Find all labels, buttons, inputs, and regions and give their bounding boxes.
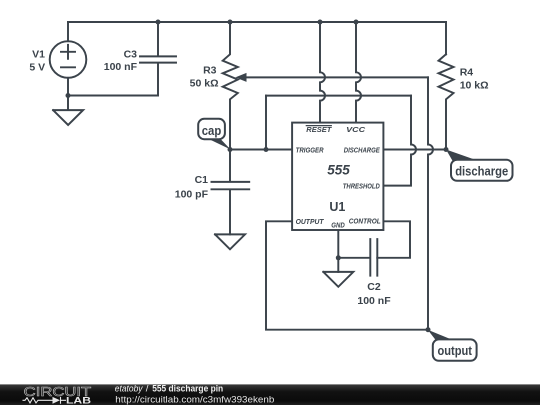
svg-text:OUTPUT: OUTPUT (296, 217, 325, 226)
junction dot V1 bottom (66, 93, 71, 98)
voltage source V1 (50, 41, 87, 78)
wire control loop (377, 221, 410, 257)
wire trigger-threshold link horizontal (266, 95, 411, 97)
svg-text:100 nF: 100 nF (104, 61, 138, 73)
wire V1 top lead (67, 22, 69, 41)
wire V1 bottom lead (67, 78, 69, 96)
svg-text:C3: C3 (124, 49, 138, 61)
svg-text:output: output (437, 343, 472, 358)
junction dot rail VCC (354, 20, 359, 25)
node output flag wedge (428, 330, 457, 342)
RESET overline (306, 125, 331, 127)
node cap flag wedge (209, 139, 231, 150)
junction dot rail C3 (156, 20, 161, 25)
logo resistor-diode squiggle (23, 397, 67, 404)
svg-text:V1: V1 (32, 49, 45, 61)
resistor R3 (pot) (223, 22, 238, 150)
wire trigger-threshold link vertical left (265, 96, 267, 150)
node discharge flag wedge (446, 150, 478, 161)
wire trigger (230, 149, 292, 151)
svg-text:/: / (146, 384, 149, 395)
svg-text:R4: R4 (460, 67, 474, 79)
svg-text:555 discharge pin: 555 discharge pin (152, 384, 223, 395)
logo diode triangle (53, 397, 61, 404)
junction dot trigger link (264, 147, 269, 152)
svg-text:RESET: RESET (306, 125, 333, 134)
junction dot cap node (228, 147, 233, 152)
capacitor C3 (140, 22, 176, 96)
ground G3 (C1) (215, 234, 245, 249)
svg-text:100 nF: 100 nF (357, 295, 391, 307)
junction dot gnd C2 (336, 255, 341, 260)
wire RESET pin vertical with hops (320, 22, 325, 123)
wire output vertical with hop at discharge (428, 77, 433, 329)
resistor R4 (439, 54, 454, 149)
svg-text:U1: U1 (329, 200, 345, 214)
svg-text:C1: C1 (195, 174, 209, 186)
svg-text:100 pF: 100 pF (175, 189, 209, 201)
svg-text:R3: R3 (203, 65, 217, 77)
node discharge box (451, 160, 513, 181)
svg-text:etatoby: etatoby (115, 384, 144, 395)
wire output loop (266, 221, 428, 329)
svg-text:C2: C2 (367, 281, 381, 293)
svg-text:VCC: VCC (346, 125, 366, 134)
node cap box (198, 119, 225, 139)
svg-text:THRESHOLD: THRESHOLD (343, 181, 381, 190)
svg-text:discharge: discharge (455, 164, 508, 179)
wire discharge (383, 149, 446, 151)
svg-text:DISCHARGE: DISCHARGE (344, 145, 381, 154)
op-amp U1 555 body (292, 123, 383, 230)
svg-text:CONTROL: CONTROL (349, 216, 381, 225)
footer bar (0, 384, 540, 405)
wire V1 to C3 bottom (68, 95, 158, 97)
wire GND pin (337, 230, 339, 272)
wire top rail (68, 21, 446, 23)
svg-text:TRIGGER: TRIGGER (296, 145, 325, 154)
wire R4 top lead (445, 22, 447, 54)
svg-text:cap: cap (202, 123, 222, 138)
wire threshold vertical with hop (383, 96, 416, 186)
R3 wiper arrowhead (235, 73, 246, 82)
svg-text:LAB: LAB (66, 396, 91, 405)
ground G2 (555 GND) (323, 272, 353, 287)
capacitor C1 (212, 150, 250, 235)
wire VCC pin vertical with hops (356, 22, 361, 123)
junction dot discharge node (444, 147, 449, 152)
node output box (433, 339, 477, 360)
ground G1 (V1) (53, 96, 83, 126)
wire R3 wiper to output vertical (246, 76, 428, 78)
svg-text:http://circuitlab.com/c3mfw393: http://circuitlab.com/c3mfw393ekenb (115, 394, 274, 405)
svg-text:50 kΩ: 50 kΩ (190, 78, 219, 90)
svg-text:GND: GND (331, 221, 345, 230)
svg-text:5 V: 5 V (29, 62, 45, 74)
junction dot output node (426, 327, 431, 332)
capacitor C2 (338, 239, 377, 276)
svg-text:10 kΩ: 10 kΩ (460, 80, 489, 92)
junction dot rail R3 (228, 20, 233, 25)
svg-text:555: 555 (327, 162, 350, 177)
junction dot rail RESET (318, 20, 323, 25)
